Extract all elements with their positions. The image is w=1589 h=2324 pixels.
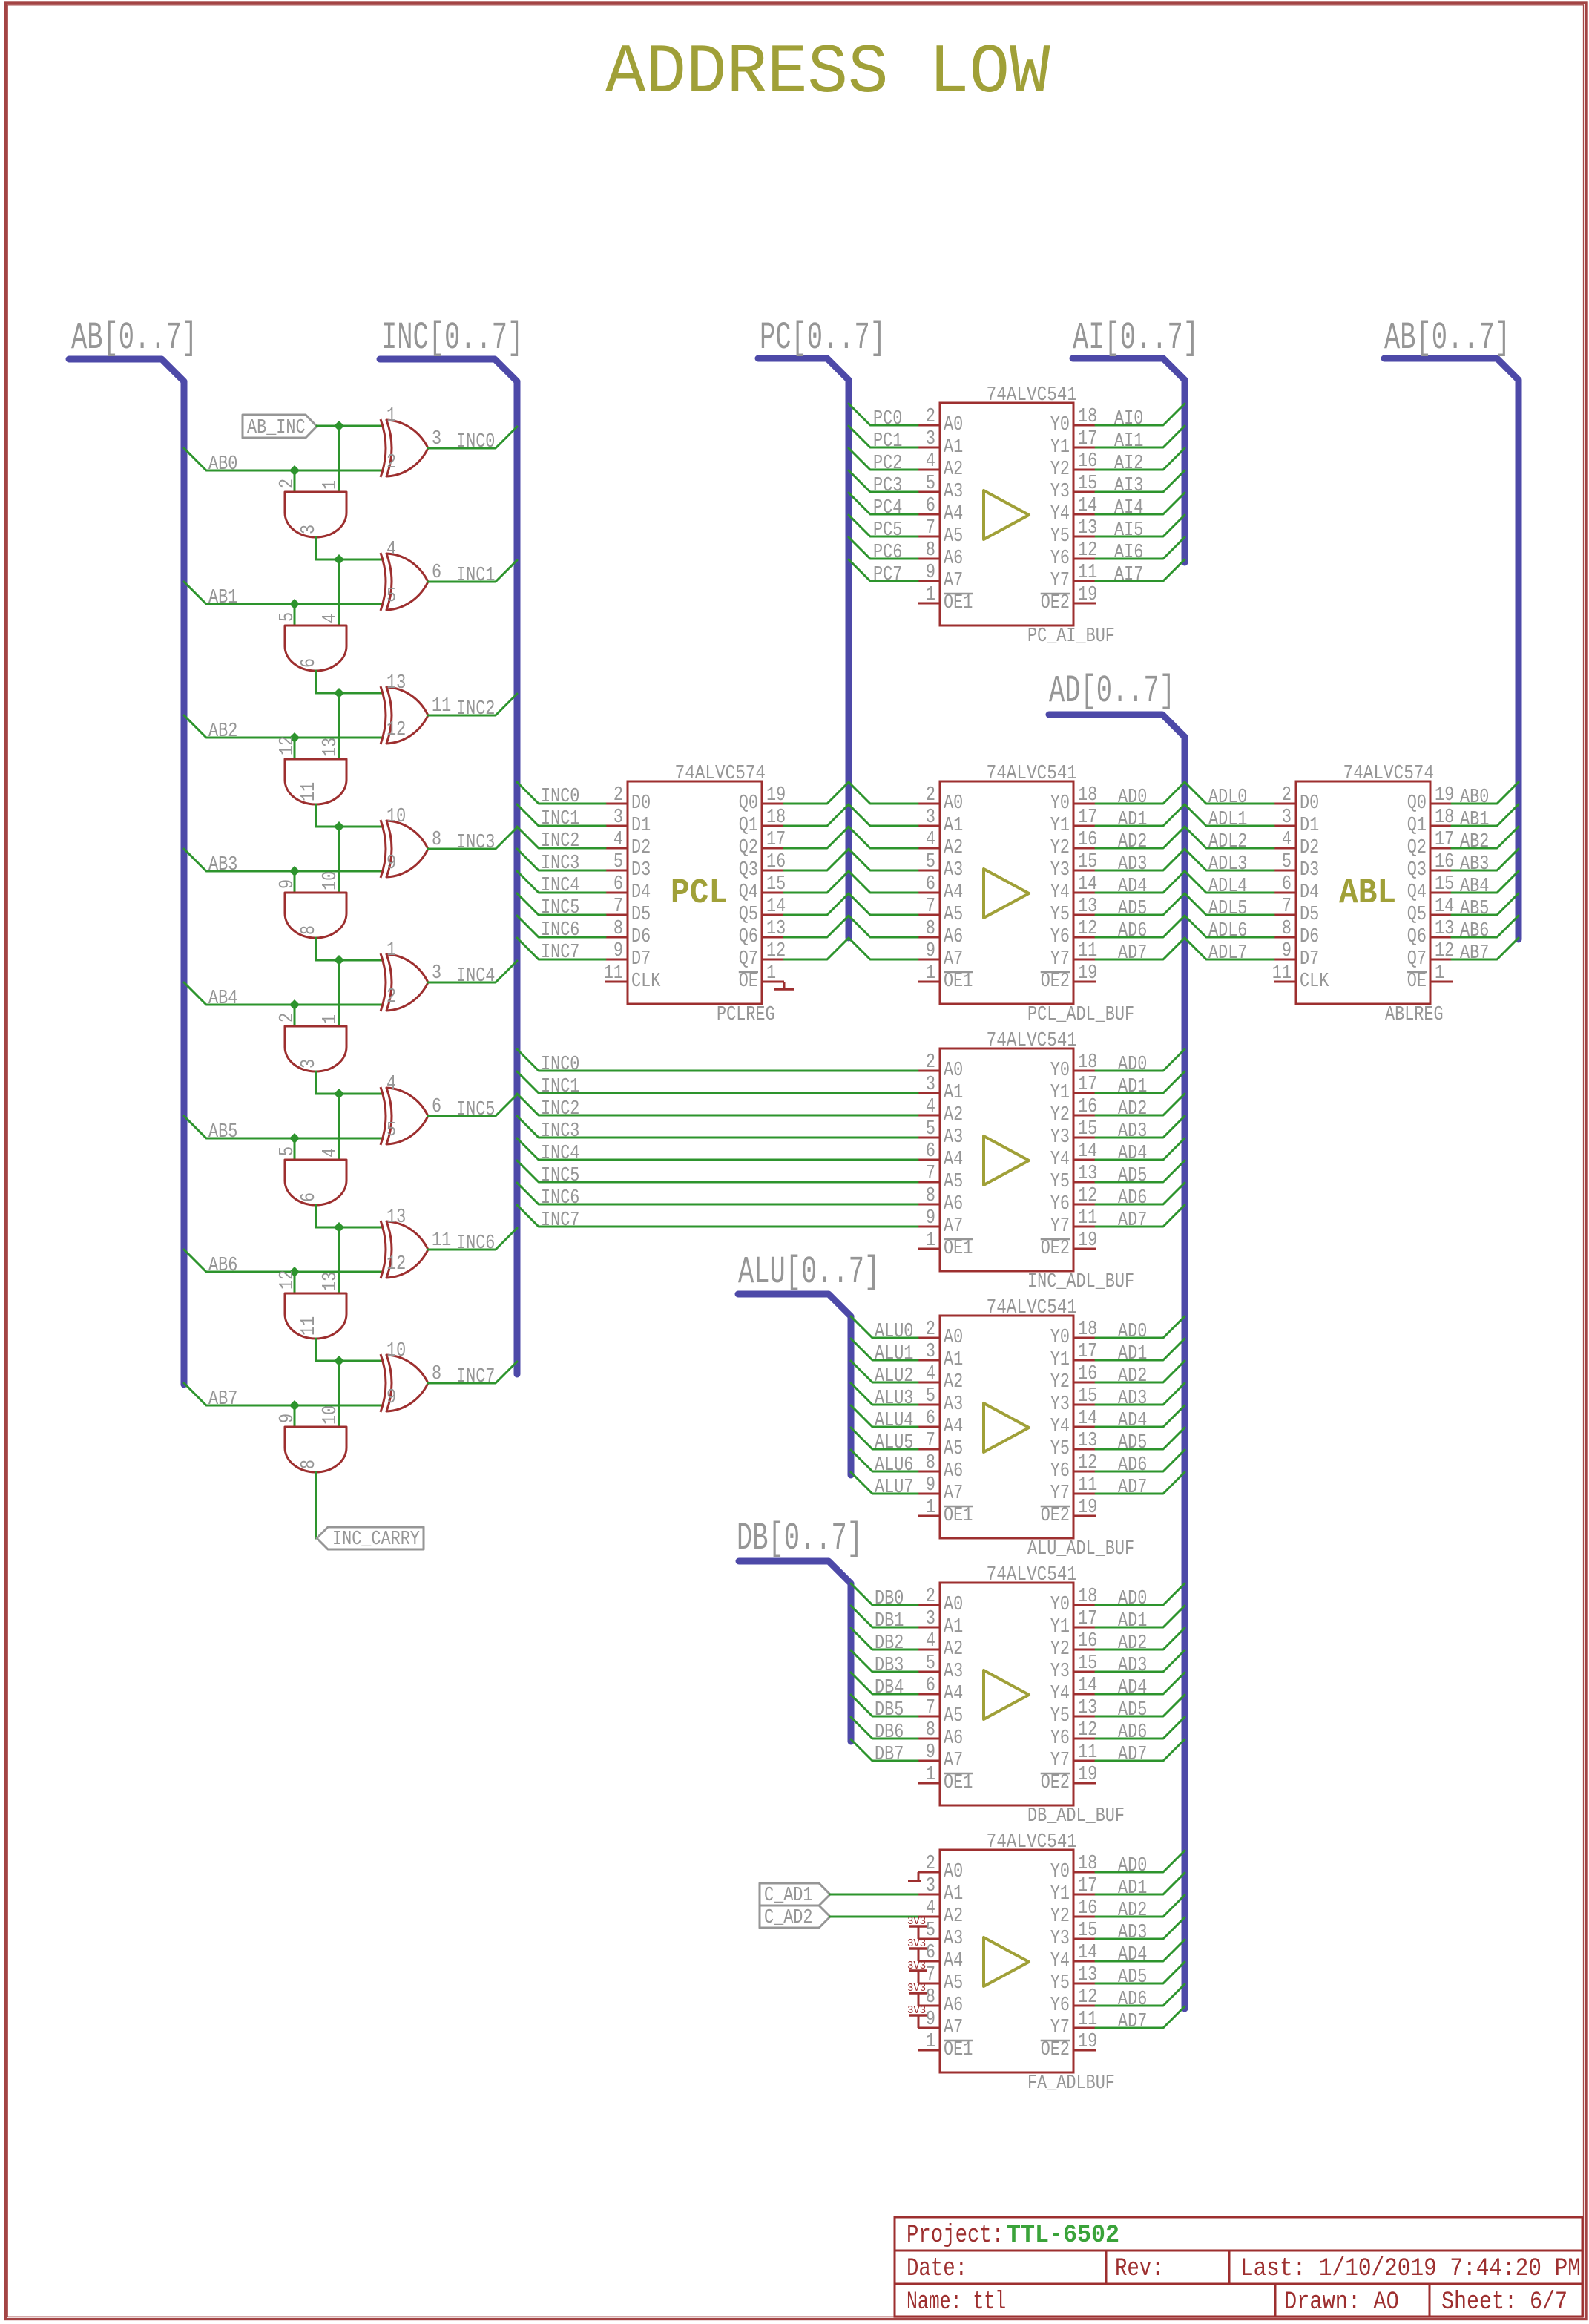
svg-text:12: 12 xyxy=(386,1253,406,1276)
svg-text:C_AD2: C_AD2 xyxy=(764,1907,813,1929)
IC FA_ADLBUF pin names xyxy=(944,1861,1070,2061)
svg-text:AB1: AB1 xyxy=(208,587,237,609)
svg-text:AD5: AD5 xyxy=(1118,1432,1147,1454)
svg-text:1: 1 xyxy=(926,2031,935,2053)
ground symbol GND on PCLREG OE xyxy=(774,982,794,989)
svg-text:ADL5: ADL5 xyxy=(1208,898,1247,920)
wire carry drop to AND stage 2 input xyxy=(338,693,340,759)
svg-text:A5: A5 xyxy=(944,1705,963,1727)
IC PC_AI_BUF pin numbers xyxy=(926,406,1097,606)
wire net PC7 from PC bus to PCL_ADL_BUF A7 xyxy=(849,938,918,959)
svg-text:74ALVC574: 74ALVC574 xyxy=(1343,763,1434,785)
svg-text:3: 3 xyxy=(298,525,320,534)
svg-text:11: 11 xyxy=(1078,1474,1097,1497)
svg-text:INC3: INC3 xyxy=(541,853,579,875)
IC DB_ADL_BUF 74ALVC541 buffer body xyxy=(918,1583,1096,1805)
svg-text:ABL: ABL xyxy=(1339,874,1396,913)
svg-text:ADL0: ADL0 xyxy=(1208,787,1247,809)
svg-text:17: 17 xyxy=(1078,1608,1097,1630)
svg-text:A2: A2 xyxy=(944,1906,963,1928)
wire net INC2 from XOR output to INC bus xyxy=(428,694,517,720)
net flag AB_INC xyxy=(243,415,317,439)
svg-text:AI[0..7]: AI[0..7] xyxy=(1073,316,1199,360)
svg-text:ALU1: ALU1 xyxy=(875,1343,913,1365)
IC ALU_ADL_BUF buffer triangle symbol xyxy=(984,1403,1029,1452)
wire net ADL2 from AD bus to ABLREG D2 xyxy=(1185,827,1274,853)
wire net AB2 from bus to XOR input xyxy=(184,715,383,743)
wire net AD7 from INC_ADL_BUF Y7 to AD bus xyxy=(1096,1205,1185,1232)
IC ALU_ADL_BUF 74ALVC541 buffer body xyxy=(918,1316,1096,1538)
svg-text:PC2: PC2 xyxy=(873,453,902,475)
IC DB_ADL_BUF buffer triangle symbol xyxy=(984,1670,1029,1719)
svg-text:ADL6: ADL6 xyxy=(1208,920,1247,942)
wire net AD5 from ALU_ADL_BUF Y5 to AD bus xyxy=(1096,1428,1185,1454)
wire net AD5 from FA_ADLBUF Y5 to AD bus xyxy=(1096,1962,1185,1989)
svg-text:Q1: Q1 xyxy=(1407,815,1427,837)
svg-text:A0: A0 xyxy=(944,1594,963,1616)
svg-text:AD5: AD5 xyxy=(1118,1699,1147,1721)
wire net AD1 from INC_ADL_BUF Y1 to AD bus xyxy=(1096,1071,1185,1098)
svg-text:9: 9 xyxy=(386,1387,396,1409)
wire carry drop to AND stage 7 input xyxy=(338,1361,340,1427)
wire net AD2 from ALU_ADL_BUF Y2 to AD bus xyxy=(1096,1361,1185,1388)
wire net AB3 from bus to XOR input xyxy=(184,849,383,876)
wire net ALU0 from ALU bus to ALU_ADL_BUF A0 xyxy=(851,1316,918,1343)
svg-text:A3: A3 xyxy=(944,481,963,503)
wire net AI4 from PC_AI_BUF Y4 to AI bus xyxy=(1096,493,1185,519)
svg-text:15: 15 xyxy=(1078,1920,1097,1942)
svg-text:6: 6 xyxy=(926,1408,935,1430)
svg-text:Q6: Q6 xyxy=(739,926,758,948)
wire net DB7 from DB bus to DB_ADL_BUF A7 xyxy=(851,1739,918,1766)
wire AB7 drop to AND input xyxy=(294,1405,296,1427)
svg-text:17: 17 xyxy=(1078,807,1097,829)
svg-text:OE2: OE2 xyxy=(1041,1238,1070,1260)
svg-text:19: 19 xyxy=(1078,962,1097,985)
svg-text:FA_ADLBUF: FA_ADLBUF xyxy=(1027,2072,1115,2095)
svg-text:1: 1 xyxy=(926,584,935,606)
svg-text:OE1: OE1 xyxy=(944,1238,973,1260)
wire net AD6 from ALU_ADL_BUF Y6 to AD bus xyxy=(1096,1450,1185,1477)
AND gate 7408 stage 7, pins 9,10 -> 8 xyxy=(277,1405,346,1472)
svg-text:13: 13 xyxy=(386,1207,406,1229)
svg-text:2: 2 xyxy=(926,406,935,428)
svg-text:6: 6 xyxy=(298,1192,320,1202)
svg-text:Y6: Y6 xyxy=(1050,1193,1070,1215)
svg-text:Project:: Project: xyxy=(907,2222,1004,2250)
svg-text:PC4: PC4 xyxy=(873,497,902,519)
svg-text:5: 5 xyxy=(277,1146,299,1156)
IC PCLREG pin numbers xyxy=(604,784,786,985)
svg-text:Q3: Q3 xyxy=(1407,859,1427,882)
wire net INC3 from INC bus to PCLREG D3 xyxy=(517,849,605,875)
svg-text:Q5: Q5 xyxy=(739,904,758,926)
svg-text:Q3: Q3 xyxy=(739,859,758,882)
wire net ALU7 from ALU bus to ALU_ADL_BUF A7 xyxy=(851,1472,918,1499)
svg-text:ADL1: ADL1 xyxy=(1208,809,1247,831)
svg-text:DB5: DB5 xyxy=(875,1699,904,1721)
svg-text:ALU[0..7]: ALU[0..7] xyxy=(738,1250,880,1294)
wire net INC6 from XOR output to INC bus xyxy=(428,1228,517,1255)
svg-text:AD4: AD4 xyxy=(1118,1944,1147,1966)
AND gate 7408 stage 6, pins 12,13 -> 11 xyxy=(277,1270,346,1339)
svg-text:7: 7 xyxy=(926,896,935,918)
svg-text:AB_INC: AB_INC xyxy=(247,417,306,439)
svg-text:1: 1 xyxy=(926,1764,935,1786)
wire AB2 drop to AND input xyxy=(294,738,296,759)
svg-text:AD3: AD3 xyxy=(1118,1922,1147,1944)
svg-text:13: 13 xyxy=(1078,896,1097,918)
wire net AB0 from bus to XOR input xyxy=(184,448,383,476)
junction on AB2 feeding AND gate xyxy=(289,732,300,743)
svg-text:AD5: AD5 xyxy=(1118,898,1147,920)
svg-text:AD1: AD1 xyxy=(1118,1343,1147,1365)
bus AB[0..7] (right) xyxy=(1384,316,1519,939)
wire net ALU1 from ALU bus to ALU_ADL_BUF A1 xyxy=(851,1339,918,1365)
wire net DB4 from DB bus to DB_ADL_BUF A4 xyxy=(851,1673,918,1699)
svg-text:18: 18 xyxy=(766,807,786,829)
svg-text:Y6: Y6 xyxy=(1050,926,1070,948)
svg-text:4: 4 xyxy=(613,829,623,851)
svg-text:A1: A1 xyxy=(944,1349,963,1371)
wire net ADL1 from AD bus to ABLREG D1 xyxy=(1185,804,1274,831)
wire net AB1 from bus to XOR input xyxy=(184,582,383,609)
svg-text:17: 17 xyxy=(766,829,786,851)
svg-text:11: 11 xyxy=(1272,962,1292,985)
svg-text:AB[0..7]: AB[0..7] xyxy=(71,316,197,360)
svg-text:D1: D1 xyxy=(1300,815,1319,837)
svg-text:INC5: INC5 xyxy=(541,897,579,919)
svg-text:A6: A6 xyxy=(944,1727,963,1750)
svg-text:2: 2 xyxy=(386,452,396,474)
svg-text:19: 19 xyxy=(1078,1764,1097,1786)
svg-text:9: 9 xyxy=(926,940,935,962)
svg-text:Q0: Q0 xyxy=(1407,792,1427,815)
svg-text:1: 1 xyxy=(320,1014,342,1024)
svg-text:PC0: PC0 xyxy=(873,408,902,430)
svg-text:AD2: AD2 xyxy=(1118,831,1147,853)
svg-text:9: 9 xyxy=(386,853,396,875)
svg-text:INC1: INC1 xyxy=(541,808,579,830)
svg-text:8: 8 xyxy=(926,918,935,940)
IC PC_AI_BUF 74ALVC541 buffer body xyxy=(918,403,1096,626)
svg-text:14: 14 xyxy=(766,896,786,918)
svg-text:AB0: AB0 xyxy=(208,453,237,476)
wire net INC7 from XOR output to INC bus xyxy=(428,1362,517,1388)
IC PCL_ADL_BUF buffer triangle symbol xyxy=(984,869,1029,918)
wire net AD2 from INC_ADL_BUF Y2 to AD bus xyxy=(1096,1094,1185,1120)
svg-text:INC2: INC2 xyxy=(541,830,579,853)
svg-text:INC_ADL_BUF: INC_ADL_BUF xyxy=(1027,1271,1134,1293)
wire AB0 drop to AND input xyxy=(294,470,296,492)
svg-text:19: 19 xyxy=(1078,1497,1097,1519)
wire net PC6 from PC bus to PC_AI_BUF A6 xyxy=(849,537,918,564)
svg-text:Y0: Y0 xyxy=(1050,1861,1070,1883)
AND gate 7408 stage 1, pins 5,4 -> 6 xyxy=(277,612,346,671)
svg-text:D3: D3 xyxy=(1300,859,1319,882)
svg-text:15: 15 xyxy=(1078,1118,1097,1140)
svg-text:AD5: AD5 xyxy=(1118,1165,1147,1187)
svg-text:AB[0..7]: AB[0..7] xyxy=(1384,316,1510,360)
wire net AI6 from PC_AI_BUF Y6 to AI bus xyxy=(1096,537,1185,564)
svg-text:Y4: Y4 xyxy=(1050,1950,1070,1972)
svg-text:INC4: INC4 xyxy=(456,965,495,988)
svg-text:INC1: INC1 xyxy=(541,1076,579,1098)
supply symbol 3V3 on FA_ADLBUF A3 xyxy=(907,1915,927,1939)
svg-text:Y7: Y7 xyxy=(1050,1215,1070,1238)
wire net INC1 from INC bus to PCLREG D1 xyxy=(517,804,605,830)
svg-text:A4: A4 xyxy=(944,1950,963,1972)
svg-text:AB4: AB4 xyxy=(1460,876,1489,898)
svg-text:D2: D2 xyxy=(631,837,651,859)
svg-text:AD4: AD4 xyxy=(1118,876,1147,898)
wire net AB3 from ABLREG Q3 to AB bus xyxy=(1452,849,1519,876)
svg-text:9: 9 xyxy=(613,940,623,962)
wire net AD4 from DB_ADL_BUF Y4 to AD bus xyxy=(1096,1673,1185,1699)
IC PCL_ADL_BUF pin names xyxy=(944,792,1070,993)
svg-text:AD3: AD3 xyxy=(1118,1120,1147,1143)
svg-text:ADL7: ADL7 xyxy=(1208,942,1247,965)
svg-text:Y1: Y1 xyxy=(1050,1349,1070,1371)
wire net AD1 from FA_ADLBUF Y1 to AD bus xyxy=(1096,1873,1185,1900)
svg-text:13: 13 xyxy=(1078,1163,1097,1185)
svg-text:3: 3 xyxy=(298,1059,320,1069)
svg-text:AD3: AD3 xyxy=(1118,1388,1147,1410)
IC FA_ADLBUF 74ALVC541 buffer body xyxy=(918,1850,1096,2072)
svg-text:A4: A4 xyxy=(944,1149,963,1171)
svg-text:1: 1 xyxy=(386,939,396,962)
bus DB[0..7] xyxy=(737,1517,863,1742)
svg-text:CLK: CLK xyxy=(1300,971,1329,993)
svg-text:A7: A7 xyxy=(944,1483,963,1505)
svg-text:OE: OE xyxy=(739,971,758,993)
svg-text:OE1: OE1 xyxy=(944,971,973,993)
svg-text:19: 19 xyxy=(1078,2031,1097,2053)
svg-text:Rev:: Rev: xyxy=(1115,2255,1164,2283)
wire net INC0 from INC bus to INC_ADL_BUF A0 xyxy=(517,1049,918,1076)
wire carry from AND stage 1 to XOR stage 2 xyxy=(316,671,384,693)
svg-text:Y4: Y4 xyxy=(1050,1683,1070,1705)
svg-text:A2: A2 xyxy=(944,1371,963,1394)
svg-text:AI7: AI7 xyxy=(1114,564,1143,586)
svg-text:INC1: INC1 xyxy=(456,565,495,587)
svg-text:10: 10 xyxy=(386,806,406,828)
svg-text:AB2: AB2 xyxy=(1460,831,1489,853)
wire net AD0 from FA_ADLBUF Y0 to AD bus xyxy=(1096,1851,1185,1877)
svg-text:1: 1 xyxy=(926,1497,935,1519)
wire net PC5 from PC bus to PC_AI_BUF A5 xyxy=(849,515,918,542)
svg-text:AD0: AD0 xyxy=(1118,1588,1147,1610)
svg-text:A6: A6 xyxy=(944,1460,963,1483)
IC DB_ADL_BUF pin names xyxy=(944,1594,1070,1794)
wire net ALU2 from ALU bus to ALU_ADL_BUF A2 xyxy=(851,1361,918,1388)
svg-text:4: 4 xyxy=(926,1897,935,1920)
svg-text:5: 5 xyxy=(386,585,396,608)
svg-text:OE2: OE2 xyxy=(1041,1505,1070,1527)
svg-text:ALU7: ALU7 xyxy=(875,1477,913,1499)
wire net PC6 from PCLREG Q6 to PC bus xyxy=(784,916,849,937)
svg-text:D7: D7 xyxy=(631,948,651,971)
svg-text:D0: D0 xyxy=(1300,792,1319,815)
junction carry node stage 3 xyxy=(334,821,344,832)
wire net INC5 from INC bus to PCLREG D5 xyxy=(517,893,605,919)
svg-text:INC0: INC0 xyxy=(541,786,579,808)
junction carry node stage 5 xyxy=(334,1089,344,1099)
wire net AD7 from DB_ADL_BUF Y7 to AD bus xyxy=(1096,1739,1185,1766)
wire net AB5 from bus to XOR input xyxy=(184,1116,383,1143)
wire net AD3 from PCL_ADL_BUF Y3 to AD bus xyxy=(1096,849,1185,876)
svg-text:2: 2 xyxy=(613,784,623,807)
svg-text:8: 8 xyxy=(926,1719,935,1742)
svg-text:12: 12 xyxy=(1078,1452,1097,1474)
svg-text:2: 2 xyxy=(1282,784,1292,807)
IC PCL_ADL_BUF pin numbers xyxy=(926,784,1097,985)
IC ALU_ADL_BUF pin numbers xyxy=(926,1319,1097,1519)
svg-text:AB3: AB3 xyxy=(208,854,237,876)
svg-text:2: 2 xyxy=(277,479,299,488)
junction on AB0 feeding AND gate xyxy=(289,465,300,476)
svg-text:Y6: Y6 xyxy=(1050,1460,1070,1483)
svg-text:2: 2 xyxy=(926,1586,935,1608)
svg-text:AI6: AI6 xyxy=(1114,542,1143,564)
svg-text:Y0: Y0 xyxy=(1050,1060,1070,1082)
svg-text:16: 16 xyxy=(1078,1897,1097,1920)
svg-text:Q4: Q4 xyxy=(739,882,758,904)
svg-text:13: 13 xyxy=(766,918,786,940)
net flag C_AD2 xyxy=(760,1906,830,1929)
wire net ADL5 from AD bus to ABLREG D5 xyxy=(1185,893,1274,920)
svg-text:AD6: AD6 xyxy=(1118,920,1147,942)
svg-text:74ALVC541: 74ALVC541 xyxy=(987,1831,1077,1854)
svg-text:TTL-6502: TTL-6502 xyxy=(1007,2222,1119,2250)
svg-text:Y5: Y5 xyxy=(1050,1972,1070,1995)
wire net AB0 from ABLREG Q0 to AB bus xyxy=(1452,782,1519,809)
wire net PC3 from PC bus to PC_AI_BUF A3 xyxy=(849,470,918,497)
svg-text:2: 2 xyxy=(926,1051,935,1074)
svg-text:A2: A2 xyxy=(944,1104,963,1126)
svg-text:INC6: INC6 xyxy=(456,1232,495,1255)
svg-text:DB1: DB1 xyxy=(875,1610,904,1632)
wire net PC4 from PCLREG Q4 to PC bus xyxy=(784,871,849,893)
svg-text:A2: A2 xyxy=(944,459,963,481)
wire net AD7 from PCL_ADL_BUF Y7 to AD bus xyxy=(1096,938,1185,965)
svg-text:8: 8 xyxy=(613,918,623,940)
svg-text:16: 16 xyxy=(1078,1630,1097,1652)
IC ABLREG pin numbers xyxy=(1272,784,1454,985)
svg-text:3V3: 3V3 xyxy=(907,2004,926,2017)
svg-text:6: 6 xyxy=(298,658,320,668)
svg-text:1: 1 xyxy=(320,480,342,490)
wire net INC6 from INC bus to PCLREG D6 xyxy=(517,916,605,942)
svg-text:4: 4 xyxy=(386,1073,396,1095)
ground symbol GND on FA_ADLBUF A0 xyxy=(908,1872,921,1881)
AND gate 7408 stage 0, pins 2,1 -> 3 xyxy=(277,479,346,537)
wire net PC2 from PC bus to PC_AI_BUF A2 xyxy=(849,448,918,475)
wire net INC_CARRY from AND stage 7 output xyxy=(315,1472,317,1538)
svg-text:Y0: Y0 xyxy=(1050,1327,1070,1349)
svg-text:Y3: Y3 xyxy=(1050,859,1070,882)
svg-text:14: 14 xyxy=(1078,1942,1097,1964)
svg-text:11: 11 xyxy=(1078,2009,1097,2031)
svg-text:AD7: AD7 xyxy=(1118,2011,1147,2033)
AND gate 7408 stage 3, pins 9,10 -> 8 xyxy=(277,871,346,938)
svg-text:D4: D4 xyxy=(631,882,651,904)
wire net INC5 from XOR output to INC bus xyxy=(428,1094,517,1121)
svg-text:8: 8 xyxy=(926,1986,935,2009)
IC ALU_ADL_BUF pin names xyxy=(944,1327,1070,1527)
XOR gate 7486 stage 6 (output INC6), pins 13,12 -> 11 xyxy=(381,1207,451,1278)
svg-text:A2: A2 xyxy=(944,1638,963,1661)
svg-text:3V3: 3V3 xyxy=(907,1982,926,1995)
svg-text:A0: A0 xyxy=(944,1861,963,1883)
svg-text:ALU3: ALU3 xyxy=(875,1388,913,1410)
wire AB1 drop to AND input xyxy=(294,604,296,626)
svg-text:11: 11 xyxy=(1078,940,1097,962)
svg-text:Y5: Y5 xyxy=(1050,1438,1070,1460)
svg-text:AD6: AD6 xyxy=(1118,1989,1147,2011)
svg-text:1: 1 xyxy=(926,1230,935,1252)
svg-text:AI1: AI1 xyxy=(1114,430,1143,453)
wire net AD6 from DB_ADL_BUF Y6 to AD bus xyxy=(1096,1717,1185,1744)
svg-text:8: 8 xyxy=(1282,918,1292,940)
wire net AD6 from PCL_ADL_BUF Y6 to AD bus xyxy=(1096,916,1185,942)
wire net AD6 from FA_ADLBUF Y6 to AD bus xyxy=(1096,1984,1185,2011)
svg-text:OE2: OE2 xyxy=(1041,1772,1070,1794)
svg-text:6: 6 xyxy=(926,873,935,896)
svg-text:AD6: AD6 xyxy=(1118,1187,1147,1209)
svg-text:AD1: AD1 xyxy=(1118,809,1147,831)
bus AI[0..7] xyxy=(1073,316,1199,562)
wire net AD2 from DB_ADL_BUF Y2 to AD bus xyxy=(1096,1628,1185,1655)
junction on AB3 feeding AND gate xyxy=(289,866,300,876)
svg-text:4: 4 xyxy=(926,1630,935,1652)
wire net AI7 from PC_AI_BUF Y7 to AI bus xyxy=(1096,559,1185,586)
svg-text:OE1: OE1 xyxy=(944,1505,973,1527)
wire net INC0 from XOR output to INC bus xyxy=(428,427,517,453)
svg-text:12: 12 xyxy=(277,736,299,755)
svg-text:4: 4 xyxy=(386,539,396,561)
wire net AD0 from INC_ADL_BUF Y0 to AD bus xyxy=(1096,1049,1185,1076)
svg-text:AD2: AD2 xyxy=(1118,1900,1147,1922)
XOR gate 7486 stage 0 (output INC0), pins 1,2 -> 3 xyxy=(381,405,441,477)
svg-text:Y2: Y2 xyxy=(1050,1638,1070,1661)
wire net PC7 from PCLREG Q7 to PC bus xyxy=(784,938,849,959)
AND gate 7408 stage 2, pins 12,13 -> 11 xyxy=(277,736,346,804)
wire net AD5 from PCL_ADL_BUF Y5 to AD bus xyxy=(1096,893,1185,920)
svg-text:A7: A7 xyxy=(944,1215,963,1238)
svg-text:11: 11 xyxy=(1078,1207,1097,1230)
svg-text:INC7: INC7 xyxy=(456,1366,495,1388)
wire net INC4 from XOR output to INC bus xyxy=(428,961,517,988)
svg-text:AD2: AD2 xyxy=(1118,1365,1147,1388)
wire carry drop to AND stage 6 input xyxy=(338,1227,340,1293)
wire net ADL4 from AD bus to ABLREG D4 xyxy=(1185,871,1274,898)
wire carry drop to AND stage 3 input xyxy=(338,827,340,893)
wire net AD4 from FA_ADLBUF Y4 to AD bus xyxy=(1096,1940,1185,1966)
svg-text:12: 12 xyxy=(1078,539,1097,562)
svg-text:AB2: AB2 xyxy=(208,720,237,743)
svg-text:A0: A0 xyxy=(944,414,963,436)
wire net AD7 from ALU_ADL_BUF Y7 to AD bus xyxy=(1096,1472,1185,1499)
wire net INC1 from INC bus to INC_ADL_BUF A1 xyxy=(517,1071,918,1098)
svg-text:INC5: INC5 xyxy=(456,1099,495,1121)
title block frame xyxy=(895,2217,1582,2317)
svg-text:7: 7 xyxy=(926,1163,935,1185)
svg-text:Date:: Date: xyxy=(907,2255,967,2283)
IC PCLREG pin names xyxy=(631,792,758,993)
svg-text:AD0: AD0 xyxy=(1118,787,1147,809)
svg-text:Y2: Y2 xyxy=(1050,837,1070,859)
